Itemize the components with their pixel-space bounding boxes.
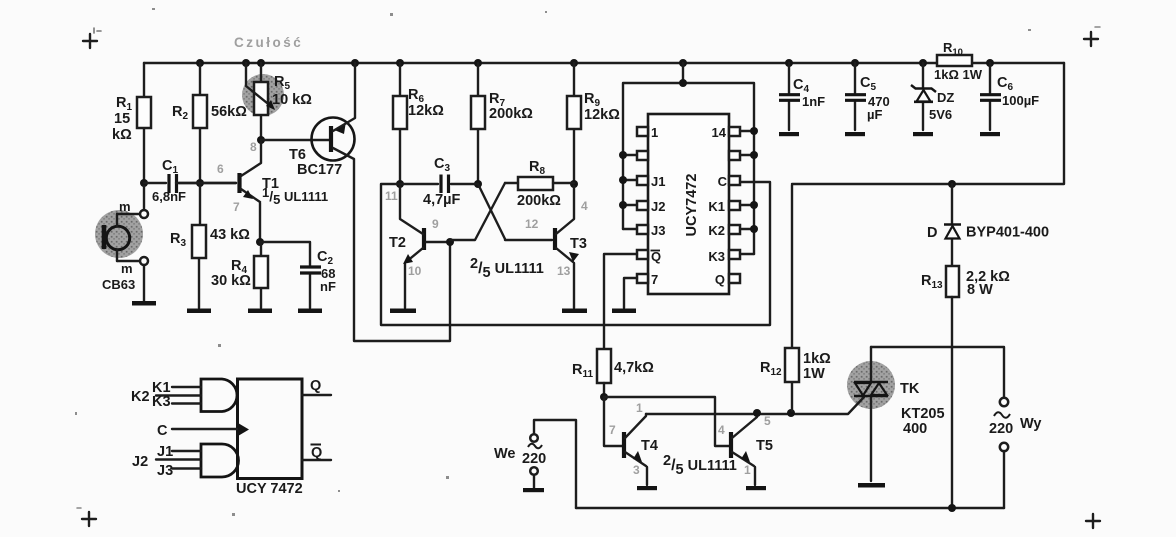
ground (C6) <box>980 132 1000 136</box>
wire IC left bus to supply <box>623 63 754 254</box>
wire cross-coupling R7 node to T3 base <box>478 184 552 240</box>
microphone CB63 <box>102 186 148 301</box>
input terminals We <box>494 420 576 508</box>
ground (C2) <box>298 309 322 314</box>
IC pin K3 <box>708 249 754 264</box>
wire cross-coupling R8 to T2 base <box>450 183 505 240</box>
node dot R13 to bottom line <box>948 504 956 512</box>
svg-text:7: 7 <box>651 272 658 287</box>
diode D BYP401-400 <box>927 184 1049 266</box>
IC pin J2 <box>623 199 665 214</box>
capacitor C5 <box>845 63 890 130</box>
IC pin J1 <box>623 174 665 189</box>
IC pin NC left <box>623 151 648 160</box>
svg-text:1kΩ: 1kΩ <box>803 351 831 367</box>
svg-text:14: 14 <box>712 125 727 140</box>
wire bottom return line <box>576 507 1004 509</box>
IC pin C <box>718 174 740 189</box>
wiper arrowhead of R5 <box>266 100 275 110</box>
node junction R1/C1/mic <box>140 179 148 187</box>
input J2 <box>132 454 201 470</box>
input J1 <box>157 444 201 460</box>
registration mark top-left <box>83 28 101 48</box>
IC pin K2 <box>708 223 754 238</box>
svg-text:13: 13 <box>557 264 571 278</box>
ground (microphone) <box>132 301 156 306</box>
svg-text:J3: J3 <box>651 223 665 238</box>
svg-text:43 kΩ: 43 kΩ <box>210 227 250 243</box>
svg-text:C: C <box>718 174 728 189</box>
potentiometer R5 <box>246 63 312 137</box>
wire T2 collector node to clock line (left branch) <box>381 182 770 325</box>
svg-text:Wy: Wy <box>1020 416 1042 432</box>
svg-text:1: 1 <box>744 463 751 477</box>
IC pin 14 <box>712 125 754 140</box>
resistor R9 <box>567 63 620 181</box>
output terminals Wy <box>989 398 1042 508</box>
svg-text:CB63: CB63 <box>102 277 135 292</box>
svg-text:K2: K2 <box>131 389 150 405</box>
output Qbar <box>302 445 331 462</box>
IC pin 1 <box>637 125 658 140</box>
svg-text:1: 1 <box>651 125 658 140</box>
ground (T3) <box>562 309 587 314</box>
transistor T1 (1/5 UL1111) <box>176 140 328 239</box>
svg-text:UCY 7472: UCY 7472 <box>236 481 303 497</box>
svg-text:4,7kΩ: 4,7kΩ <box>614 360 654 376</box>
wire triac anode to output <box>871 347 1004 398</box>
IC pin Qbar <box>637 249 661 264</box>
IC U1 UCY7472 body <box>648 114 729 294</box>
input K3 <box>152 394 201 410</box>
svg-text:1: 1 <box>636 401 643 415</box>
svg-text:30 kΩ: 30 kΩ <box>211 273 251 289</box>
svg-text:J2: J2 <box>132 454 148 470</box>
resistor R4 <box>211 242 268 308</box>
capacitor C4 <box>779 63 825 130</box>
registration mark top-right <box>1084 27 1100 46</box>
svg-text:K3: K3 <box>708 249 725 264</box>
resistor R3 <box>170 183 250 308</box>
svg-text:220: 220 <box>522 451 546 467</box>
svg-text:56kΩ: 56kΩ <box>211 104 247 120</box>
input K2 <box>131 389 201 405</box>
svg-text:J1: J1 <box>651 174 665 189</box>
resistor R8 <box>505 159 574 209</box>
node dot R9 / R8 / T3 collector <box>570 180 578 188</box>
IC pin J3 <box>623 223 665 238</box>
resistor R2 <box>172 63 247 180</box>
svg-text:K3: K3 <box>152 394 171 410</box>
registration mark bottom-left <box>77 508 96 526</box>
svg-text:K1: K1 <box>708 199 725 214</box>
ground (T4) <box>637 486 657 490</box>
svg-text:12kΩ: 12kΩ <box>408 103 444 119</box>
transistor T5 (2/5 UL1111) <box>718 414 773 485</box>
highlight blob over microphone <box>95 210 143 258</box>
node junction T1 emitter / R4 / C2 <box>256 238 264 246</box>
wire R11 node to T5 base <box>604 397 729 446</box>
svg-text:7: 7 <box>233 200 240 214</box>
IC pin Q <box>715 272 740 287</box>
svg-text:C: C <box>157 423 168 439</box>
svg-text:400: 400 <box>903 421 927 437</box>
IC pin K1 <box>708 199 754 214</box>
zener diode DZ 5V6 <box>911 63 954 130</box>
svg-text:J1: J1 <box>157 444 173 460</box>
svg-text:4: 4 <box>581 199 588 213</box>
ground (T2) <box>390 309 416 314</box>
ground (R4) <box>248 309 272 314</box>
node dots IC buses <box>619 151 627 159</box>
svg-text:12kΩ: 12kΩ <box>584 107 620 123</box>
node junction R5/T6 base/T1 collector <box>257 136 265 144</box>
transistor T3 (2/5 UL1111) <box>525 186 588 308</box>
svg-text:D: D <box>927 225 937 241</box>
transistor T6 BC177 <box>289 63 450 341</box>
wire collector line T4/T5 to triac gate <box>646 397 864 414</box>
resistor R13 <box>921 266 1010 506</box>
svg-text:1kΩ 1W: 1kΩ 1W <box>934 67 983 82</box>
input C with clock arrow <box>157 423 249 439</box>
svg-text:Czułość: Czułość <box>234 35 303 50</box>
resistor R1 <box>112 63 151 180</box>
node dot T5 collector on gate line <box>753 409 761 417</box>
input J3 <box>157 463 201 479</box>
svg-text:8: 8 <box>250 140 257 154</box>
svg-text:J2: J2 <box>651 199 665 214</box>
svg-text:K2: K2 <box>708 223 725 238</box>
highlight blob over R5 <box>242 74 284 116</box>
wire R5 node to T6 base <box>261 139 329 141</box>
logic diagram: AND gate (J inputs) <box>201 444 239 477</box>
node dot R11 / T4 base / T5 base <box>600 393 608 401</box>
node dot R12 on gate line <box>787 409 795 417</box>
svg-text:Q: Q <box>310 378 321 394</box>
svg-text:1/5 UL1111: 1/5 UL1111 <box>262 185 328 207</box>
svg-text:T2: T2 <box>389 235 406 251</box>
ground (C5) <box>845 132 865 136</box>
svg-text:J3: J3 <box>157 463 173 479</box>
svg-text:Q: Q <box>715 272 725 287</box>
ground (R3) <box>187 309 211 314</box>
svg-text:nF: nF <box>320 279 336 294</box>
logic diagram: flip-flop box <box>238 379 303 479</box>
svg-text:15: 15 <box>114 111 130 127</box>
svg-text:6,8nF: 6,8nF <box>152 189 186 204</box>
capacitor C2 <box>260 242 336 308</box>
wire rail right edge down to distribution line <box>792 63 1064 184</box>
svg-text:4,7µF: 4,7µF <box>423 192 461 208</box>
node dot T2 base / T6 collector <box>446 238 454 246</box>
node dot diode branch <box>948 180 956 188</box>
ground (IC pin 7) <box>612 309 636 314</box>
wire top supply rail <box>144 62 1064 64</box>
wire R11 node to T4 base <box>604 397 622 446</box>
svg-text:6: 6 <box>217 162 224 176</box>
svg-text:12: 12 <box>525 217 539 231</box>
svg-text:5: 5 <box>764 414 771 428</box>
highlight blob over triac TK <box>847 361 895 409</box>
scan specks <box>75 8 1031 516</box>
svg-text:11: 11 <box>385 189 398 203</box>
svg-text:1W: 1W <box>803 366 825 382</box>
ground (triac) <box>858 483 885 488</box>
svg-text:m: m <box>121 261 133 276</box>
input K1 <box>152 380 201 396</box>
resistor R6 <box>393 63 444 181</box>
ground (T5) <box>746 486 766 490</box>
svg-text:10: 10 <box>408 264 422 278</box>
resistor R7 <box>471 63 533 181</box>
svg-text:10 kΩ: 10 kΩ <box>272 92 312 108</box>
capacitor C6 <box>980 63 1039 130</box>
svg-text:DZ: DZ <box>937 90 954 105</box>
registration mark bottom-right <box>1086 514 1100 528</box>
wire Qbar pin to R11 <box>604 254 637 349</box>
svg-text:200kΩ: 200kΩ <box>489 106 533 122</box>
resistor R10 (series in rail) <box>934 40 983 82</box>
resistor R12 <box>760 185 831 411</box>
svg-text:7: 7 <box>609 423 616 437</box>
svg-text:T3: T3 <box>570 236 587 252</box>
IC pin 7 <box>637 272 658 287</box>
svg-text:5V6: 5V6 <box>929 107 952 122</box>
IC pin NC right <box>729 151 754 160</box>
capacitor C1 <box>144 158 236 204</box>
svg-text:200kΩ: 200kΩ <box>517 193 561 209</box>
svg-text:BYP401-400: BYP401-400 <box>966 225 1049 241</box>
wire pin 7 to ground <box>624 278 637 308</box>
transistor T2 (2/5 UL1111) <box>385 186 448 308</box>
resistor R11 <box>572 349 654 394</box>
node junction R2/C1/R3 <box>196 179 204 187</box>
svg-text:9: 9 <box>432 217 439 231</box>
node dot R7 / C3 / T3 base <box>474 180 482 188</box>
output Q <box>302 378 331 395</box>
ground (DZ) <box>913 132 933 136</box>
svg-text:BC177: BC177 <box>297 162 342 178</box>
svg-text:220: 220 <box>989 421 1013 437</box>
ground (We) <box>523 488 544 492</box>
svg-text:3: 3 <box>633 463 640 477</box>
capacitor C3 <box>400 156 478 208</box>
svg-text:m: m <box>119 199 131 214</box>
svg-text:100µF: 100µF <box>1002 93 1039 108</box>
svg-text:Q: Q <box>311 445 322 461</box>
svg-text:8 W: 8 W <box>967 282 993 298</box>
svg-text:4: 4 <box>718 423 725 437</box>
logic diagram UCY7472: AND gate (K inputs) <box>201 379 237 412</box>
triac TK KT205/400 <box>854 347 945 481</box>
svg-text:T6: T6 <box>289 147 306 163</box>
svg-text:We: We <box>494 446 516 462</box>
svg-text:UCY7472: UCY7472 <box>684 174 700 237</box>
svg-text:T4: T4 <box>641 438 658 454</box>
svg-text:KT205: KT205 <box>901 406 945 422</box>
ground (C4) <box>779 132 799 136</box>
node dot T2 collector / R6 / C3 <box>396 180 404 188</box>
svg-text:µF: µF <box>867 107 882 122</box>
svg-text:TK: TK <box>900 381 920 397</box>
svg-text:1nF: 1nF <box>802 94 825 109</box>
svg-text:T5: T5 <box>756 438 773 454</box>
node dots on top rail <box>196 59 204 67</box>
transistor T4 (2/5 UL1111) <box>609 401 658 485</box>
svg-text:kΩ: kΩ <box>112 127 132 143</box>
